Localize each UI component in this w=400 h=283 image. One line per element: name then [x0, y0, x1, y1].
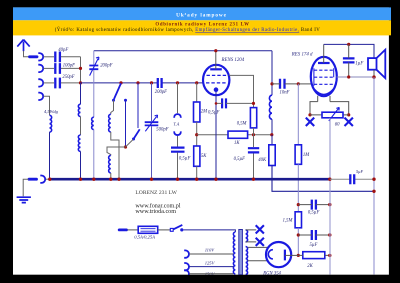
V1 anode lead to rail	[215, 51, 217, 70]
svg-text:5K: 5K	[201, 154, 207, 159]
wire varcap down crossing grid wire to coil L3	[93, 70, 95, 117]
wire contact2 down to junction	[125, 100, 127, 147]
V1 screen grid g2 (dashed)	[207, 74, 229, 76]
jack J3	[38, 79, 43, 86]
wire 110V tap	[189, 253, 233, 255]
node column A row2	[79, 67, 82, 70]
V2 grids (dashed)	[314, 70, 334, 84]
rheostat arrow	[329, 107, 340, 121]
node bus 5K	[195, 178, 198, 181]
transformer primary winding	[233, 232, 235, 274]
svg-text:40K: 40K	[258, 158, 267, 163]
black matte right cover	[389, 35, 400, 283]
wire choke to node	[271, 119, 273, 135]
wire rheostat links	[310, 114, 349, 116]
svg-text:10nF: 10nF	[280, 90, 290, 95]
node 1uF top	[347, 43, 350, 46]
V2 anode lead to rail	[323, 44, 325, 63]
node rheostat right	[347, 113, 350, 116]
fuse inner lines	[141, 229, 156, 232]
wire L2a to L2b	[80, 117, 82, 136]
filament terminal X left	[306, 118, 314, 126]
wire filter top row	[298, 204, 330, 206]
wire 2K row	[298, 254, 330, 256]
svg-text:www.trioda.com: www.trioda.com	[135, 209, 176, 215]
inductor L2b	[78, 135, 80, 151]
V3 cathode arc	[268, 250, 273, 259]
banner yellow bar	[13, 20, 391, 35]
jack J4	[38, 93, 43, 100]
svg-text:Odbiornik radiowy Lorenz 231 L: Odbiornik radiowy Lorenz 231 LW	[155, 23, 249, 28]
wire 5K to bus	[196, 166, 198, 179]
node bus L4	[117, 178, 120, 181]
wire cathode to bypass cap to node	[216, 102, 254, 104]
svg-text:LORENZ 231 LW: LORENZ 231 LW	[135, 190, 177, 196]
node filter mid left	[297, 233, 300, 236]
wire T.A column top	[177, 83, 179, 113]
inductor L5	[109, 155, 111, 173]
wire rail corner down to variable cap	[93, 51, 95, 65]
wire filter mid row	[298, 234, 330, 236]
svg-text:RENS 1204: RENS 1204	[221, 58, 245, 63]
speaker driver	[368, 58, 377, 70]
wire 1M down crossing bus and B+ line	[297, 164, 299, 212]
wire junction to coil L5	[107, 147, 126, 155]
capacitor 0,5uF (pickup)	[171, 148, 185, 152]
wire L2b to bus	[80, 151, 82, 179]
svg-text:1K: 1K	[234, 141, 240, 146]
V2 filament pins	[318, 96, 330, 102]
wire V3 anode to node	[285, 254, 298, 256]
wire pivot to junction	[126, 139, 133, 146]
node 2M/1K junction	[195, 133, 198, 136]
antenna	[17, 40, 29, 52]
wire screen to speaker return	[337, 76, 374, 78]
wire plug to fuse	[128, 229, 139, 231]
V1 control grid g1 (dashed)	[206, 82, 226, 84]
wire T.A lower to cap	[177, 136, 179, 147]
plug P1	[30, 55, 38, 58]
capacitor 5uF bus coupling	[350, 174, 354, 184]
node rheostat left	[308, 113, 311, 116]
node cathode tee	[215, 102, 218, 105]
svg-text:5µF: 5µF	[310, 243, 318, 248]
capacitor C2 100pF	[55, 63, 60, 74]
svg-text:125V: 125V	[205, 260, 216, 265]
inductor L3	[92, 117, 94, 129]
resistor 1K	[228, 131, 248, 138]
resistor 1,5M	[295, 212, 301, 228]
wire grid junction down to 1M	[297, 84, 299, 145]
wire 2M to node	[196, 122, 198, 146]
wire L5 to bus	[110, 173, 112, 179]
mains plug	[119, 228, 126, 231]
svg-text:1M: 1M	[303, 153, 310, 158]
V2 filament arc	[314, 89, 333, 94]
node 2K right	[328, 254, 331, 257]
node junction y147	[124, 145, 127, 148]
switch blade A	[114, 83, 121, 99]
wire 1,5M to node	[297, 228, 299, 256]
capacitor 0,5uF cathode bypass	[222, 98, 226, 108]
capacitor 0,5uF to bus	[248, 148, 259, 152]
node anode on rail	[214, 49, 217, 52]
wire rheostat wiper to bus	[329, 118, 331, 275]
mains switch contact left	[170, 228, 173, 231]
node bus cathode	[214, 178, 217, 181]
fuse 0,5A	[138, 226, 158, 233]
node speaker return	[372, 75, 375, 78]
wire tuning column lower to bus	[151, 126, 153, 179]
V3 anode bar	[284, 250, 286, 261]
chassis bus (thick)	[50, 178, 330, 181]
transformer rectifier winding	[246, 247, 248, 275]
transformer filament winding	[246, 230, 248, 242]
banner blue bar	[13, 7, 391, 20]
wire rail corner down to choke	[271, 51, 273, 95]
capacitor 0,5uF filter top	[312, 200, 316, 210]
wire L1 to bus	[49, 132, 51, 179]
mains switch contact right	[180, 228, 183, 231]
svg-text:0,5µF: 0,5µF	[234, 157, 246, 162]
node bus left end	[48, 178, 51, 181]
grid bus wire row3 across	[81, 82, 204, 84]
svg-text:0,5µF: 0,5µF	[179, 156, 191, 161]
svg-text:1,5M: 1,5M	[283, 219, 294, 224]
svg-text:1µF: 1µF	[355, 61, 363, 66]
black matte bottom cover	[0, 275, 400, 283]
capacitor C1 40pF	[55, 52, 60, 63]
resistor 2K	[303, 252, 325, 259]
wire 0,5M to node	[253, 128, 255, 147]
voltage selector jack 150V	[184, 270, 189, 277]
svg-text:40pF: 40pF	[58, 48, 68, 53]
wire plug to ground	[23, 179, 28, 196]
svg-text:2K: 2K	[307, 264, 313, 269]
svg-text:200pF: 200pF	[100, 64, 112, 69]
inductor L2a	[78, 104, 80, 116]
wire L4 to bus	[111, 132, 119, 179]
resistor 5K	[194, 146, 200, 166]
wire jack to bus	[45, 178, 50, 180]
inductor choke (plate load)	[269, 95, 272, 119]
node grid leak column	[195, 81, 198, 84]
wire column A (input caps junction)	[80, 57, 82, 83]
node T.A column	[176, 81, 179, 84]
node bus right end	[328, 178, 331, 181]
wire J1 to C1	[43, 56, 54, 58]
wire switch B feed down	[137, 83, 139, 128]
svg-text:250pF: 250pF	[62, 75, 74, 80]
wire 150V tap	[189, 273, 233, 275]
wire J3 to C3	[43, 82, 54, 84]
svg-text:0,5µF: 0,5µF	[208, 111, 220, 116]
tube V3 RGN 354 envelope	[266, 242, 291, 267]
wire cap to bus	[253, 153, 255, 179]
inductor L1 4,5Wdg	[50, 115, 52, 132]
node bypass/0,5M junction	[252, 102, 255, 105]
node right column B+	[372, 190, 375, 193]
node filter top right	[328, 203, 331, 206]
svg-text:110V: 110V	[205, 248, 216, 253]
node right column bus	[372, 178, 375, 181]
svg-text:200pF: 200pF	[155, 90, 167, 95]
wire tuning column upper	[151, 83, 153, 121]
variable capacitor 200pF	[89, 57, 99, 76]
wire filament winding to X terminals	[246, 230, 257, 242]
transformer T1 core	[239, 230, 243, 275]
node tuning cap column	[150, 81, 153, 84]
white gap in wire at series cap	[159, 82, 161, 84]
resistor 2M	[194, 102, 200, 122]
node filter top left	[297, 203, 300, 206]
wire contact1 to coil L4	[111, 100, 114, 114]
node bus L5	[109, 178, 112, 181]
svg-text:T.A: T.A	[173, 121, 179, 126]
rheostat 60	[322, 112, 343, 118]
node choke bottom junction	[270, 133, 273, 136]
capacitor 10nF	[280, 79, 285, 89]
node bus L3	[92, 178, 95, 181]
wire cathode down to bus	[215, 92, 217, 179]
speaker horn	[377, 50, 386, 78]
wire fuse to switch	[158, 229, 170, 231]
ground plug	[29, 178, 37, 181]
wire rectifier filament leads	[248, 247, 268, 260]
wire 125V tap	[189, 266, 233, 268]
wire column A to coil L2	[80, 83, 82, 104]
jack J2	[38, 65, 43, 72]
capacitor 5uF filter mid	[312, 230, 316, 240]
node bus L2	[79, 178, 82, 181]
wire speaker bottom lead	[373, 70, 375, 77]
switch A contact 1	[112, 99, 115, 102]
filament X terminal upper	[256, 225, 264, 233]
svg-text:(Ÿród³o: Katalog schematów rad: (Ÿród³o: Katalog schematów radioodbiorni…	[55, 27, 321, 33]
svg-text:5µF: 5µF	[356, 169, 364, 174]
capacitor 200pF series on grid wire	[158, 78, 162, 88]
wire grid junction to tube V2	[298, 83, 311, 85]
wire bus extension to right column	[330, 178, 374, 180]
voltage selector jack 110V	[184, 250, 189, 257]
jack J1	[38, 53, 43, 60]
svg-text:0,5M: 0,5M	[237, 122, 248, 127]
svg-text:60: 60	[335, 123, 340, 128]
node bus TA	[176, 178, 179, 181]
tube V1 RENS 1204 envelope	[203, 65, 229, 95]
resistor 0,5M	[250, 108, 256, 128]
node bus 0,5uF	[252, 178, 255, 181]
node column A row3	[79, 81, 82, 84]
jack T.A upper	[174, 114, 181, 118]
wire filament right step	[330, 102, 349, 115]
wire filament left step	[310, 102, 318, 115]
jack T.A lower	[174, 131, 181, 135]
switch blade B	[134, 129, 140, 139]
node 1K right junction	[252, 133, 255, 136]
node rectifier output	[297, 254, 300, 257]
wire switch to transformer primary	[183, 230, 235, 232]
inductor L4	[109, 114, 111, 132]
svg-text:100pF: 100pF	[63, 63, 75, 68]
wire cathode line y134.7	[197, 134, 272, 136]
ground symbol	[17, 197, 31, 202]
node filter mid right	[328, 233, 331, 236]
V1 anode	[210, 68, 222, 70]
svg-text:RES 174 d: RES 174 d	[291, 53, 313, 58]
wire J2 to C2	[43, 67, 54, 69]
ground jack	[40, 176, 45, 183]
wire cap to bus	[177, 153, 179, 180]
wire grid leak column top	[196, 83, 198, 102]
wire J4 to coil L1	[43, 96, 49, 115]
capacitor 1uF	[343, 58, 355, 62]
svg-text:Uk³ady lampowe: Uk³ady lampowe	[176, 12, 227, 18]
node switch B feed on grid wire	[136, 81, 139, 84]
node switch blade A on grid wire	[119, 81, 122, 84]
mains switch blade	[173, 225, 182, 229]
variable capacitor 500pF	[145, 115, 159, 131]
switch B pivot contact	[132, 138, 135, 141]
wire L3 to bus	[93, 130, 95, 180]
capacitor C3 250pF	[55, 78, 60, 89]
wire 10nF row	[272, 83, 298, 85]
voltage selector jack 125V	[184, 263, 189, 270]
wire C3 to grid bus	[61, 82, 81, 84]
resistor 1M	[295, 145, 301, 165]
wire 1uF leads	[348, 44, 350, 77]
svg-text:500pF: 500pF	[156, 128, 168, 133]
V1 cathode dot	[214, 87, 219, 92]
V2 grid side rails	[314, 68, 334, 85]
wire 40K down crossing bus to B+ line	[272, 166, 374, 192]
V2 anode	[318, 62, 330, 64]
filament terminal X right	[345, 118, 353, 126]
node choke/10nF junction	[270, 82, 273, 85]
top rail y50.7	[94, 50, 272, 52]
tube V2 RES 174 d envelope	[311, 57, 337, 96]
wire C1 to column A	[61, 56, 81, 58]
node bus tuning	[150, 178, 153, 181]
resistor 40K	[269, 145, 275, 166]
wire node to 40K	[271, 135, 273, 145]
anode rail to speaker	[324, 44, 374, 58]
node 10nF / grid2 junction	[297, 82, 300, 85]
wire g2 to 0,5M column	[229, 75, 254, 107]
node 1uF bottom	[347, 75, 350, 78]
switch A contact 2	[124, 99, 127, 102]
svg-text:0,5µF: 0,5µF	[308, 211, 320, 216]
wire antenna to plug	[24, 51, 30, 57]
wire C2 to column A	[61, 67, 81, 69]
wire right column down	[373, 77, 375, 274]
filament X terminal lower	[256, 238, 264, 246]
